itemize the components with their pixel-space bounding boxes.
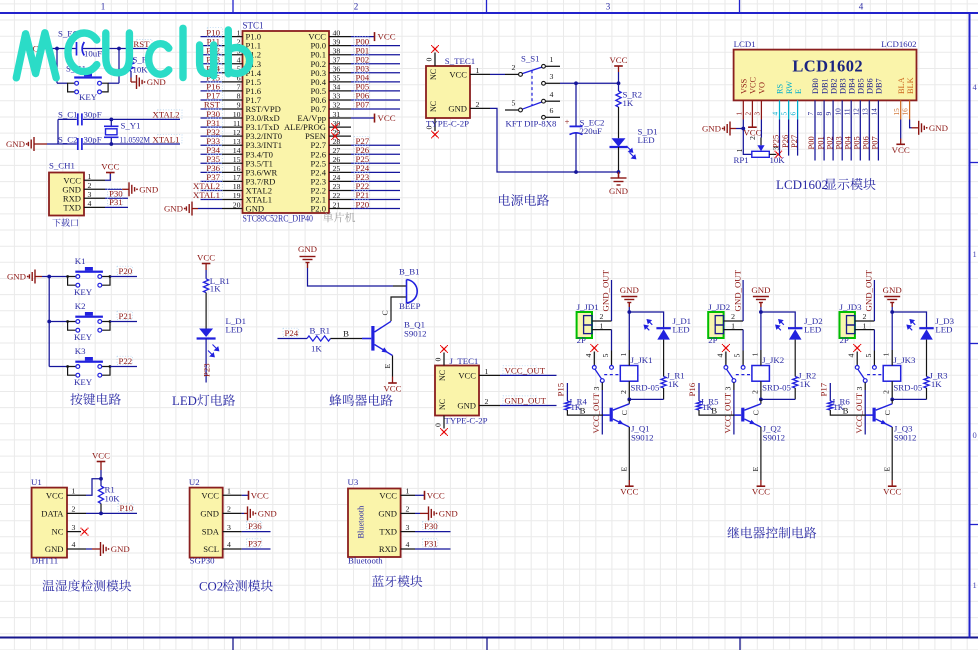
svg-text:S_CH1: S_CH1 (49, 161, 75, 171)
svg-text:DB1: DB1 (820, 78, 829, 94)
connector J_JD2 pin 1 (724, 321, 744, 330)
svg-text:VCC: VCC (427, 490, 445, 500)
svg-text:GND: GND (139, 184, 158, 194)
mcu pin 17 (P3.7/RD) (222, 173, 275, 186)
net label P37 (mcu left) (206, 172, 222, 182)
resistor B_R1 1K (307, 326, 331, 354)
wire net P23 at mcu pin 24 (351, 180, 400, 182)
svg-text:VCC: VCC (201, 490, 219, 500)
net label P25 (mcu right) (354, 154, 370, 164)
wire buzzer to transistor collector (391, 297, 393, 321)
mcu pin 29 (PSEN) (305, 128, 351, 141)
connector S_CH1 pin 1 (VCC) (63, 172, 105, 186)
svg-text:VCC: VCC (449, 69, 467, 79)
relay J_JK1 body (620, 355, 660, 393)
svg-text:GND: GND (702, 124, 721, 134)
svg-text:NC: NC (429, 69, 438, 80)
svg-text:2: 2 (600, 312, 604, 321)
svg-text:33: 33 (333, 92, 341, 101)
net label P13 (mcu left) (206, 54, 222, 64)
svg-text:GND: GND (457, 401, 476, 411)
svg-text:J_JD2: J_JD2 (708, 302, 730, 312)
wire U2 net P36 (242, 531, 271, 533)
svg-text:J_JK3: J_JK3 (893, 355, 916, 365)
svg-text:P31: P31 (109, 197, 123, 207)
svg-text:15: 15 (233, 155, 241, 164)
title 蓝牙模块 (372, 575, 422, 587)
svg-text:P37: P37 (248, 538, 262, 548)
svg-text:C: C (752, 410, 761, 415)
net label P36 (247, 521, 263, 531)
svg-text:1: 1 (973, 580, 977, 590)
svg-text:E: E (751, 467, 760, 472)
connector J_TEC1 NC labels (438, 370, 447, 410)
svg-text:NC: NC (438, 399, 447, 410)
net label P03 (lcd) (833, 136, 843, 149)
junction node cap branch top (574, 81, 578, 85)
svg-text:3: 3 (606, 2, 611, 12)
svg-text:4: 4 (406, 540, 410, 549)
mcu pin 40 (VCC) (308, 28, 351, 41)
wire U2 net P37 (242, 548, 271, 550)
svg-text:4: 4 (859, 2, 864, 12)
svg-text:S9012: S9012 (631, 433, 654, 443)
svg-text:GND: GND (7, 272, 26, 282)
svg-text:TXD: TXD (379, 527, 397, 537)
svg-text:2: 2 (750, 390, 759, 394)
svg-text:VCC: VCC (251, 490, 269, 500)
net label P21 (mcu right) (354, 190, 369, 200)
emitter wire (J_Q2) (751, 427, 761, 480)
svg-text:VCC: VCC (620, 487, 638, 497)
net label VCC_OUT (rotated, J_JK3) (854, 392, 864, 433)
svg-text:3: 3 (550, 72, 554, 81)
logo MCUclub (16, 28, 249, 78)
svg-text:KEY: KEY (74, 287, 93, 297)
junction node rail bottom right (617, 170, 621, 174)
module U1 DHT11 body (32, 488, 67, 558)
ground symbol (buttons) (7, 270, 35, 284)
svg-text:1: 1 (550, 55, 554, 64)
svg-text:P27: P27 (789, 135, 799, 148)
wire net P37 at mcu pin 17 (201, 180, 223, 182)
wire lcd net P06 (868, 120, 870, 161)
net label P14 (mcu left) (206, 64, 222, 74)
module U1 pin 3 (NC) (52, 523, 81, 537)
svg-text:K3: K3 (75, 346, 86, 356)
svg-text:P36: P36 (248, 521, 262, 531)
connector J_JD1 pin 2 (592, 312, 612, 321)
svg-text:Bluetooth: Bluetooth (348, 556, 383, 566)
net label P15 (rotated) (556, 382, 566, 396)
wire base (J_Q1) (567, 406, 609, 416)
connector J_JD1 pin 1 (592, 321, 612, 330)
svg-text:TYPE-C-2P: TYPE-C-2P (426, 119, 469, 129)
mcu pin 10 (P3.0/RxD) (222, 110, 280, 123)
relay J_JK1 coil pin 1 (619, 312, 630, 366)
svg-text:RP1: RP1 (734, 155, 749, 165)
junction node crystal bottom (109, 142, 113, 146)
svg-text:2: 2 (862, 312, 866, 321)
svg-text:S_S1: S_S1 (521, 54, 540, 64)
svg-text:12: 12 (233, 128, 241, 137)
ground symbol (download port) (129, 182, 158, 196)
lcd pin 2 (VCC) (744, 76, 758, 119)
mcu pin 31 (EA/Vpp) (297, 110, 351, 123)
svg-text:23: 23 (333, 182, 341, 191)
wire switch pin3 net VCC_OUT (J_JK1) (601, 383, 603, 435)
wire net P06 at mcu pin 33 (351, 99, 400, 101)
connector J_TEC1 pin 2 GND (457, 397, 500, 411)
svg-text:3: 3 (592, 387, 601, 391)
wire rail to key K1 (49, 276, 67, 278)
svg-text:1: 1 (406, 487, 410, 496)
sheet border bottom line (0, 637, 978, 639)
svg-text:1K: 1K (931, 379, 942, 389)
svg-text:LED: LED (172, 394, 197, 408)
net label P10 (mcu left) (206, 27, 222, 37)
net label P16 (rotated) (687, 382, 697, 396)
title LED灯电路 (172, 394, 235, 408)
svg-text:35: 35 (333, 74, 341, 83)
wire lcd net P02 (832, 120, 834, 161)
power port VCC (U2) (249, 490, 269, 500)
svg-text:LED: LED (673, 324, 690, 334)
svg-text:GND: GND (147, 77, 166, 87)
crystal S_Y1 11.0592M (104, 119, 150, 144)
relay J_JK2 coil pin 1 (750, 312, 761, 366)
junction node at reset rail left (55, 47, 59, 51)
svg-text:38: 38 (333, 46, 341, 55)
wire base (J_Q2) (699, 406, 741, 416)
svg-text:32: 32 (333, 101, 341, 110)
sheet border right edge marks (973, 82, 978, 590)
net label P31 (U3) (423, 538, 438, 548)
svg-text:2: 2 (88, 181, 92, 190)
svg-text:10: 10 (833, 108, 842, 116)
svg-text:XTAL1: XTAL1 (193, 190, 220, 200)
lcd pin 6 (E) (789, 89, 803, 120)
svg-text:XTAL2: XTAL2 (152, 110, 179, 120)
net label P27 (mcu right) (354, 136, 370, 146)
wire net P24 at mcu pin 25 (351, 171, 400, 173)
wire net P05 at mcu pin 34 (351, 90, 400, 92)
led L_D1 (197, 316, 246, 357)
svg-text:RW: RW (785, 81, 794, 94)
svg-text:8: 8 (815, 112, 824, 116)
wire lcd net P04 (850, 120, 852, 161)
svg-text:1: 1 (476, 66, 480, 75)
wire switch pin3 net VCC_OUT (J_JK3) (864, 383, 866, 435)
svg-text:4: 4 (847, 354, 856, 358)
no-connect X at mcu pin 30 (331, 123, 339, 131)
svg-text:5: 5 (780, 112, 789, 116)
wire lcd pin16 BLK to GND (910, 120, 919, 128)
svg-text:LED: LED (226, 325, 243, 335)
power port VCC (reset circuit) (20, 43, 40, 53)
led J_D3 (907, 316, 954, 340)
svg-text:P23: P23 (202, 363, 212, 377)
svg-text:1: 1 (88, 172, 92, 181)
wire net P15 at mcu pin 6 (201, 81, 223, 83)
junction node U1 DATA (99, 512, 103, 516)
lcd pin 11 (DB4) (842, 77, 856, 119)
mcu pin 38 (P0.1) (310, 46, 351, 59)
svg-text:S9012: S9012 (894, 433, 917, 443)
resistor R1 10K (98, 485, 120, 514)
svg-text:14: 14 (233, 146, 241, 155)
title 按键电路 (70, 393, 120, 405)
net label P25 (lcd) (771, 135, 781, 148)
net label GND_OUT (rotated, J_JD1) (601, 269, 611, 311)
net label P26 (mcu right) (354, 145, 370, 155)
svg-text:J_JK2: J_JK2 (762, 355, 784, 365)
relay switch pins (J_JK3) (847, 344, 883, 383)
svg-text:P21: P21 (119, 311, 133, 321)
no-connect X at S_TEC1 bottom (431, 131, 439, 139)
connector J_JD1 body 2P (577, 312, 592, 345)
wire net P31 at mcu pin 11 (201, 126, 223, 128)
connector S_CH1 pin 4 (TXD) (63, 199, 105, 213)
net label P26 (lcd) (780, 135, 790, 148)
junction node rail bottom (J_JK1) (627, 398, 631, 402)
svg-text:B_B1: B_B1 (399, 267, 420, 277)
svg-text:1: 1 (227, 487, 231, 496)
mcu pin 39 (P0.0) (310, 37, 351, 50)
svg-text:4: 4 (550, 90, 554, 99)
svg-text:2: 2 (748, 136, 757, 140)
wire lcd VSS to potentiometer pin1 (743, 129, 752, 155)
svg-text:E: E (383, 364, 392, 369)
svg-text:30pF: 30pF (84, 110, 102, 120)
svg-text:TXD: TXD (63, 202, 81, 212)
net label P17 (rotated) (819, 382, 829, 396)
connector J_TEC1 top NC pin (434, 353, 445, 366)
svg-text:3: 3 (72, 523, 76, 532)
relay J_JK2 body (752, 355, 792, 393)
svg-text:1: 1 (619, 353, 628, 357)
title 蜂鸣器电路 (329, 394, 392, 406)
connector S_CH1 pin 2 (GND) (62, 181, 105, 195)
net label P03 (mcu right) (354, 64, 370, 74)
mcu pin 5 (P1.4) (222, 65, 262, 78)
net label P05 (mcu right) (354, 82, 370, 92)
svg-text:1K: 1K (311, 344, 322, 354)
lcd pin 1 (VSS) (734, 78, 748, 119)
svg-text:S9012: S9012 (404, 329, 427, 339)
wire base (J_Q3) (830, 406, 872, 416)
title 温湿度检测模块 (42, 580, 131, 592)
wire net RST at mcu pin 9 (201, 108, 223, 110)
lcd pin 9 (DB2) (824, 78, 838, 119)
svg-text:3: 3 (406, 523, 410, 532)
svg-text:1: 1 (862, 321, 866, 330)
wire base (buzzer) (331, 328, 372, 338)
wire key K3 to net P22 (110, 366, 137, 368)
module U2 SGP30 body (190, 488, 223, 558)
svg-text:9: 9 (824, 112, 833, 116)
mcu pin 23 (P2.2) (310, 182, 351, 195)
net label GND_OUT (rotated, J_JD2) (732, 269, 742, 311)
lcd pin 4 (RS) (771, 83, 785, 119)
wire VCC to RST rail (41, 48, 152, 50)
svg-text:11: 11 (233, 119, 241, 128)
svg-text:KEY: KEY (79, 92, 98, 102)
wire S_CH1 pin1 to VCC (105, 173, 110, 181)
svg-text:37: 37 (333, 55, 341, 64)
wire U1 pin4 to GND (86, 548, 101, 550)
svg-text:GND: GND (883, 285, 902, 295)
svg-text:DB4: DB4 (847, 77, 856, 94)
svg-text:S_C1: S_C1 (58, 110, 78, 120)
svg-text:17: 17 (233, 173, 241, 182)
no-connect X at U1 pin3 (80, 528, 88, 536)
svg-text:VCC: VCC (46, 490, 64, 500)
connector J_JD3 body 2P (840, 312, 855, 345)
wire S_CH1 pin2 to GND (105, 188, 129, 190)
wire U2 pin1 to VCC (242, 494, 249, 496)
svg-text:BLK: BLK (906, 77, 915, 94)
svg-text:5: 5 (601, 354, 610, 358)
junction node crystal top (109, 118, 113, 122)
svg-text:VCC: VCC (378, 113, 396, 123)
svg-text:28: 28 (333, 137, 341, 146)
svg-text:39: 39 (333, 37, 341, 46)
net label P21 (117, 311, 132, 321)
net label P04 (lcd) (842, 136, 852, 150)
transistor B_Q1 S9012 (371, 320, 426, 356)
potentiometer RP1 10K (734, 136, 786, 165)
svg-text:2: 2 (882, 390, 891, 394)
wire lcd net P05 (859, 120, 861, 161)
net label P15 (mcu left) (206, 73, 222, 83)
junction node button rail K2 (47, 320, 51, 324)
svg-text:VCC_OUT: VCC_OUT (505, 365, 546, 375)
wire net P21 at mcu pin 22 (351, 199, 400, 201)
svg-text:DB5: DB5 (857, 78, 866, 94)
net label XTAL1 (crystal) (152, 134, 182, 144)
junction node at reset rail right (117, 47, 121, 51)
lcd pin 13 (DB6) (860, 78, 874, 119)
net label RST (133, 39, 152, 49)
power port VCC (U3) (425, 490, 445, 500)
wire net XTAL1 at mcu pin 19 (201, 199, 223, 201)
net label P24 (mcu right) (354, 163, 370, 173)
connector J_JD3 pin 1 (855, 321, 875, 330)
emitter wire (J_Q1) (620, 427, 630, 480)
no-connect X at J_TEC1 top (440, 345, 448, 353)
svg-text:220uF: 220uF (580, 126, 603, 136)
svg-text:9: 9 (237, 101, 241, 110)
junction node lcd VSS / RP1 (741, 127, 745, 131)
lcd pin 3 (VO) (753, 82, 767, 119)
wire rail top to led (J_D2) (761, 312, 795, 328)
ground symbol (reset circuit) (137, 75, 166, 89)
no-connect X at mcu pin 29 (331, 132, 339, 140)
net label P04 (mcu right) (354, 73, 370, 83)
capacitor S_EC1 10uF (58, 29, 102, 59)
svg-text:TYPE-C-2P: TYPE-C-2P (445, 416, 488, 426)
transistor J_Q2 S9012 (741, 404, 785, 443)
wire key K1 to net P20 (110, 276, 137, 278)
relay J_JK2 coil pin 2 (750, 381, 761, 399)
svg-text:P16: P16 (687, 382, 697, 396)
net label P27 (lcd) (789, 135, 799, 148)
svg-text:DB7: DB7 (875, 78, 884, 94)
connector J_TEC1 bottom NC pin (434, 416, 445, 429)
svg-text:21: 21 (333, 200, 341, 209)
ground symbol (U2) (248, 506, 277, 520)
ground symbol (U3) (429, 506, 458, 520)
svg-text:VCC: VCC (383, 384, 401, 394)
svg-text:K1: K1 (75, 256, 86, 266)
svg-text:14: 14 (870, 108, 879, 116)
net label P05 (lcd) (852, 136, 862, 149)
ground symbol (U1) (101, 542, 130, 556)
wire net P35 at mcu pin 15 (201, 162, 223, 164)
svg-text:5: 5 (512, 99, 516, 108)
junction node rail bottom (J_JK3) (890, 398, 894, 402)
connector S_TEC1 pin 1 VCC (449, 66, 490, 80)
svg-text:VO: VO (758, 82, 767, 94)
svg-text:C: C (883, 410, 892, 415)
wire U1 DATA net P10 (86, 512, 137, 514)
svg-text:VCC: VCC (92, 451, 110, 461)
module U3 Bluetooth body (348, 489, 401, 558)
connector J_TEC1 body TYPE-C-2P (435, 366, 479, 416)
power port VCC (J_Q2, down) (752, 480, 770, 497)
key K3 (66, 346, 111, 387)
wire J_JD1 pin1 to switch pin5 (611, 330, 613, 366)
mcu pin 11 (P3.1/TxD) (222, 119, 279, 132)
svg-text:B_R1: B_R1 (310, 326, 331, 336)
wire key K2 to net P21 (110, 321, 137, 323)
led J_D2 (776, 316, 823, 340)
svg-text:3: 3 (227, 523, 231, 532)
mcu pin 1 (P1.0) (222, 28, 261, 41)
svg-text:GND: GND (620, 285, 639, 295)
svg-text:NC: NC (52, 527, 64, 537)
svg-text:GND: GND (448, 103, 467, 113)
net label XTAL2 (crystal) (152, 110, 182, 120)
junction node rail bottom (J_JK2) (759, 398, 763, 402)
wire net P25 at mcu pin 26 (351, 162, 400, 164)
wire P16 to resistor J_R5 (698, 383, 700, 401)
svg-text:GND: GND (258, 508, 277, 518)
power port VCC at mcu pin 31 (375, 113, 396, 123)
wire lcd net P25 (779, 120, 781, 156)
net label P17 (mcu left) (206, 91, 222, 101)
svg-text:7: 7 (806, 112, 815, 116)
svg-text:LED: LED (638, 135, 655, 145)
svg-text:2: 2 (485, 397, 489, 406)
svg-text:10K: 10K (105, 494, 121, 504)
wire collector (J_Q3) (883, 399, 892, 415)
svg-text:VCC: VCC (749, 76, 758, 94)
wire lcd pin1 VSS to GND (730, 120, 743, 129)
svg-text:1: 1 (485, 367, 489, 376)
svg-text:C: C (620, 410, 629, 415)
svg-text:B: B (343, 328, 349, 338)
wire led to resistor (J_R2) (794, 340, 796, 377)
mcu pin 22 (P2.1) (310, 191, 351, 204)
net label P35 (mcu left) (206, 154, 222, 164)
junction node at R1 top (129, 47, 133, 51)
net label GND_OUT (rotated, J_JD3) (864, 269, 874, 311)
junction node rail top (J_JK3) (890, 310, 894, 314)
wire resistor to rail bottom (J_R1) (663, 388, 665, 399)
wire net VCC_OUT (500, 374, 557, 376)
